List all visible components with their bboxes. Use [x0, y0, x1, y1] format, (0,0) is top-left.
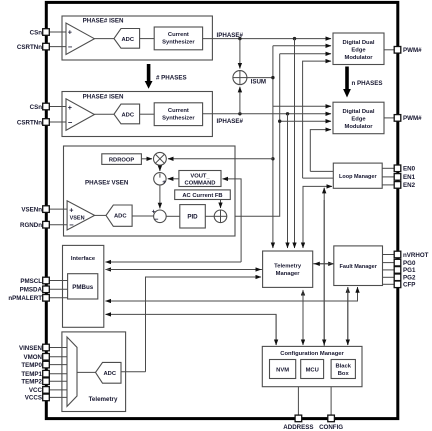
wire RGNDn to op-amp	[49, 224, 67, 226]
wire telemetry manager - config manager bidirectional	[302, 290, 304, 345]
svg-text:Interface: Interface	[71, 256, 96, 262]
svg-text:PHASE# ISEN: PHASE# ISEN	[83, 18, 124, 25]
wire IPHASE1 down into ISUM	[239, 39, 241, 69]
wire CONFIG	[330, 387, 332, 416]
svg-text:ADC: ADC	[104, 371, 117, 377]
wire loop manager to modulator2 input4	[310, 130, 331, 172]
svg-text:CSRTNn: CSRTNn	[17, 44, 42, 51]
svg-text:Manager: Manager	[276, 271, 301, 277]
svg-text:AC Current FB: AC Current FB	[182, 193, 222, 199]
wire ISUM tap into multiplier	[168, 158, 273, 160]
block PHASE# VSEN	[64, 146, 236, 236]
wire op-amp1 to ADC1	[94, 38, 114, 40]
wire op-amp2 to ADC2	[94, 113, 114, 115]
svg-text:TEMP0: TEMP0	[21, 362, 42, 369]
svg-text:VCCS: VCCS	[25, 395, 42, 402]
wire TEMP2	[49, 380, 67, 382]
block Telemetry Manager	[263, 251, 313, 287]
op-amp ISEN2	[66, 99, 94, 131]
svg-text:Synthesizer: Synthesizer	[162, 40, 195, 46]
ADC ISEN2	[114, 104, 140, 124]
wire ISUM bus vertical	[272, 46, 274, 248]
block Configuration Manager	[262, 346, 362, 386]
wire telemetry ADC to telemetry manager	[146, 277, 262, 372]
svg-text:Digital Dual: Digital Dual	[343, 40, 375, 46]
pin VCCS	[25, 394, 50, 402]
wire summer2 to PID	[166, 215, 180, 217]
wire IPHASE#1 to modulator 1	[203, 38, 331, 40]
svg-text:PHASE# ISEN: PHASE# ISEN	[83, 93, 124, 100]
wire loop manager to modulator1 input4	[303, 61, 331, 178]
Black Box	[331, 360, 355, 379]
svg-text:VINSEN: VINSEN	[19, 345, 43, 352]
svg-text:Modulator: Modulator	[344, 55, 373, 61]
pin PMSDA	[20, 286, 50, 294]
wire EN2	[382, 184, 394, 186]
outer IC boundary	[46, 2, 398, 418]
pin PWM# 2	[394, 115, 422, 123]
wire compensator output vertical	[227, 54, 280, 217]
svg-text:+: +	[162, 179, 166, 186]
wire nPMALERT	[49, 297, 67, 299]
wire PG0	[383, 262, 395, 264]
wire CSn2 to op-amp	[49, 106, 66, 108]
summer2 error	[152, 209, 167, 224]
pin CONFIG	[319, 415, 343, 431]
current synthesizer 2	[154, 103, 202, 126]
op-amp ISEN1	[66, 23, 94, 55]
svg-text:+: +	[69, 206, 73, 215]
pin TEMP2	[21, 378, 49, 386]
svg-text:Black: Black	[335, 364, 351, 370]
VOUT_COMMAND box	[179, 171, 221, 187]
wire PID to summer3	[205, 215, 214, 217]
wire nVRHOT	[383, 254, 395, 256]
PID box	[180, 205, 206, 228]
svg-text:VCC: VCC	[29, 387, 43, 394]
svg-text:CONFIG: CONFIG	[319, 424, 343, 431]
svg-text:PHASE# VSEN: PHASE# VSEN	[85, 180, 129, 187]
block PHASE# ISEN 1	[62, 16, 212, 60]
wire EN1	[382, 176, 394, 178]
wire multiplier down to summer1	[159, 165, 161, 171]
svg-text:TEMP1: TEMP1	[21, 371, 42, 378]
ADC telemetry	[96, 362, 122, 383]
pin PWM# 1	[394, 47, 422, 55]
wire EN0	[382, 167, 394, 169]
svg-text:PG0: PG0	[403, 260, 416, 267]
wire interface tap to VOUT_COMMAND	[223, 179, 242, 262]
svg-text:−: −	[154, 216, 158, 223]
wire mux to ADC	[77, 371, 96, 373]
svg-text:NVM: NVM	[276, 368, 289, 374]
wire TEMP0	[49, 364, 67, 366]
wire ADC to summer2	[132, 215, 154, 217]
node IPHASE1-ISUM junction	[238, 37, 241, 40]
wire loop3 down to telemetry manager	[302, 186, 304, 248]
wire ADC1 to synthesizer1	[140, 38, 155, 40]
wire PG1	[383, 269, 395, 271]
svg-text:CFP: CFP	[403, 282, 415, 289]
summer droop plus vout	[154, 173, 167, 186]
svg-text:# PHASES: # PHASES	[156, 74, 187, 81]
svg-text:Edge: Edge	[351, 48, 366, 54]
svg-text:Edge: Edge	[351, 117, 366, 123]
wire interface-telemetry manager bidirectional	[106, 269, 263, 271]
svg-text:Telemetry: Telemetry	[89, 396, 118, 403]
pin VINSEN	[19, 344, 49, 352]
svg-text:Current: Current	[168, 108, 189, 114]
wire TEMP1	[49, 373, 67, 375]
wire summer1 down to summer2	[159, 185, 161, 208]
svg-text:−: −	[69, 221, 74, 230]
svg-text:IPHASE#: IPHASE#	[217, 118, 244, 125]
svg-text:PG1: PG1	[403, 267, 416, 274]
wire ADC telemetry output	[121, 371, 146, 373]
wire loop manager input1	[310, 170, 333, 172]
wire ISUM to modulator1 input2	[273, 45, 331, 47]
PMBus box	[68, 274, 98, 299]
wire op-amp VSEN to ADC	[95, 214, 106, 216]
svg-text:PWM#: PWM#	[403, 115, 422, 122]
wire config manager up to loop manager	[323, 188, 325, 346]
wire ISUM to modulator2 input1	[273, 105, 331, 107]
svg-text:EN1: EN1	[403, 174, 416, 181]
pin VMON	[23, 354, 49, 362]
wire VMON	[49, 356, 67, 358]
svg-text:PMSDA: PMSDA	[20, 287, 43, 294]
svg-text:ADDRESS: ADDRESS	[283, 424, 313, 431]
wire CSRTNn1 to op-amp	[49, 46, 66, 48]
wire CFP	[383, 283, 395, 285]
pin EN0	[394, 165, 415, 173]
svg-text:CSn: CSn	[30, 104, 43, 111]
wire CSRTNn2 to op-amp	[49, 121, 66, 123]
arrow n PHASES	[343, 67, 382, 98]
pin EN2	[394, 182, 415, 190]
svg-text:EN2: EN2	[403, 182, 416, 189]
svg-text:Loop Manager: Loop Manager	[339, 174, 377, 180]
node droop tap junction	[271, 157, 274, 160]
node IPHASE2-telemetry junction	[286, 112, 289, 115]
multiplier droop	[154, 152, 167, 165]
wire loop manager input3	[303, 186, 332, 248]
pin PG2	[394, 274, 416, 282]
pin VSENn	[21, 206, 49, 214]
svg-text:EN0: EN0	[403, 166, 416, 173]
wire telemetry-interface link upper	[106, 261, 242, 263]
current synthesizer 1	[154, 27, 202, 50]
svg-text:PMSCL: PMSCL	[20, 278, 42, 285]
pin nVRHOT	[394, 251, 428, 259]
mux telemetry	[67, 337, 77, 406]
svg-text:MCU: MCU	[306, 368, 319, 374]
wire PWM#2	[384, 117, 394, 119]
svg-text:+: +	[152, 209, 156, 216]
svg-text:ADC: ADC	[122, 37, 135, 43]
wire telemetry manager - fault manager bidirectional	[313, 263, 334, 265]
pin RGNDn	[20, 221, 49, 229]
wire fault manager to interface	[106, 287, 358, 301]
pin EN1	[394, 174, 415, 182]
wire AC Current FB into summer3	[220, 200, 222, 209]
modulator 2 Digital Dual Edge	[333, 102, 384, 134]
wire PMSDA	[49, 288, 67, 290]
wire interface to config arrow	[275, 314, 277, 345]
wire PMSCL	[49, 280, 67, 282]
svg-text:Fault Manager: Fault Manager	[340, 264, 378, 270]
svg-text:TEMP2: TEMP2	[21, 379, 42, 386]
wire PWM#1	[384, 49, 394, 51]
wire ADC2 to synthesizer2	[140, 113, 155, 115]
pin CSRTNn 2	[17, 119, 49, 127]
wire VINSEN	[49, 347, 67, 349]
svg-text:CSRTNn: CSRTNn	[17, 119, 42, 126]
svg-text:ISUM: ISUM	[251, 78, 266, 85]
svg-text:VOUT_: VOUT_	[190, 173, 210, 179]
pin PG1	[394, 267, 416, 275]
svg-text:ADC: ADC	[122, 112, 135, 118]
pin VCC	[29, 387, 49, 395]
svg-text:−: −	[68, 118, 73, 127]
MCU box	[301, 360, 324, 379]
RDROOP box	[102, 154, 142, 165]
wire IPHASE1 to telemetry manager	[294, 39, 296, 248]
pin CSn 2	[30, 103, 50, 111]
svg-text:Digital Dual: Digital Dual	[343, 109, 375, 115]
summer3 output	[214, 210, 227, 223]
wire compensator to modulator2 input3	[280, 120, 331, 122]
block PHASE# ISEN 2	[62, 92, 212, 137]
wire loop manager input2	[303, 177, 334, 179]
wire IPHASE2 to telemetry manager	[287, 114, 289, 248]
wire RDROOP to multiplier	[141, 158, 152, 160]
wire fault manager - config manager bidirectional	[347, 287, 349, 345]
wire CSn1 to op-amp	[49, 31, 66, 33]
wire config link arrow into config	[323, 200, 325, 345]
svg-text:nVRHOT: nVRHOT	[403, 252, 429, 259]
block Fault Manager	[334, 246, 383, 286]
wire ADDRESS	[297, 387, 299, 416]
pin TEMP1	[21, 370, 49, 378]
svg-text:RGNDn: RGNDn	[20, 222, 42, 229]
pin TEMP0	[21, 361, 49, 369]
pin nPMALERT	[8, 295, 49, 303]
modulator 1 Digital Dual Edge	[333, 33, 384, 65]
svg-text:CSn: CSn	[30, 29, 43, 36]
wire VOUT_COMMAND to summer1	[168, 178, 179, 180]
op-amp VSEN	[67, 201, 95, 230]
wire config manager to interface	[106, 314, 277, 345]
block Interface	[63, 245, 104, 327]
svg-text:Telemetry: Telemetry	[274, 263, 302, 269]
node IPHASE2-ISUM junction	[238, 112, 241, 115]
pin ADDRESS	[283, 415, 313, 431]
node IPHASE1-telemetry junction	[293, 37, 296, 40]
arrow # PHASES	[145, 64, 187, 89]
svg-text:PG2: PG2	[403, 275, 416, 282]
NVM box	[270, 360, 296, 379]
wire IPHASE2 up into ISUM	[239, 87, 241, 114]
ADC VSEN	[106, 205, 132, 226]
wire VCC	[49, 389, 67, 391]
svg-text:VMON: VMON	[23, 354, 42, 361]
svg-text:n PHASES: n PHASES	[352, 80, 383, 87]
svg-text:nPMALERT: nPMALERT	[8, 295, 42, 302]
wire ISUM output	[247, 77, 273, 79]
svg-text:Configuration Manager: Configuration Manager	[280, 351, 344, 357]
wire fault bottom arrow	[357, 287, 359, 301]
wire PG2	[383, 276, 395, 278]
wire IPHASE#2 to modulator 2	[203, 113, 331, 115]
svg-text:PMBus: PMBus	[72, 284, 94, 291]
pin CFP	[394, 281, 415, 289]
svg-text:VSENn: VSENn	[21, 206, 42, 213]
svg-text:+: +	[68, 103, 72, 112]
pin CSRTNn 1	[17, 43, 49, 51]
pin PG0	[394, 259, 416, 267]
svg-text:ADC: ADC	[114, 214, 127, 220]
svg-text:−: −	[68, 43, 73, 52]
svg-text:PWM#: PWM#	[403, 47, 422, 54]
wire compensator to modulator1 input3	[280, 53, 331, 55]
svg-text:Current: Current	[168, 32, 189, 38]
node compensator mod2 junction	[278, 120, 281, 123]
summer ISUM	[233, 71, 266, 86]
svg-text:RDROOP: RDROOP	[109, 158, 135, 164]
svg-text:+: +	[68, 28, 72, 37]
ADC ISEN1	[114, 29, 140, 49]
wire VSENn to op-amp	[49, 208, 67, 210]
AC Current FB box	[175, 190, 231, 200]
wire VCCS	[49, 396, 67, 398]
svg-text:COMMAND: COMMAND	[185, 180, 216, 186]
node ISUM output junction	[271, 76, 274, 79]
svg-text:Modulator: Modulator	[344, 124, 373, 130]
pin PMSCL	[20, 277, 49, 285]
svg-text:Synthesizer: Synthesizer	[162, 115, 195, 121]
pin CSn 1	[30, 29, 50, 37]
block Loop Manager	[333, 163, 382, 188]
block Telemetry	[62, 332, 126, 412]
svg-text:PID: PID	[187, 214, 198, 221]
svg-text:Box: Box	[338, 371, 350, 377]
